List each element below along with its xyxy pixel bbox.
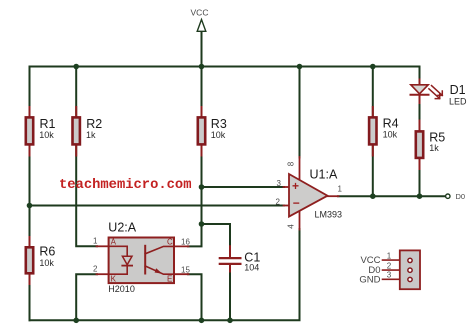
resistor R4 bbox=[369, 107, 399, 156]
resistor R2 bbox=[73, 107, 103, 156]
svg-text:4: 4 bbox=[287, 224, 296, 229]
svg-text:C: C bbox=[167, 238, 173, 247]
wire: U1 pin 8 supply column from top bus bbox=[299, 67, 301, 158]
junction node: R4 top at bus bbox=[370, 64, 376, 70]
svg-text:R4: R4 bbox=[383, 117, 399, 131]
wire: D1/R5 column down to output line bbox=[419, 79, 421, 196]
junction node: C1/U2 pin 16 branch bbox=[199, 221, 205, 227]
wire: node to C1 branch down to ground bus bbox=[202, 224, 231, 247]
wire: bottom ground bus with corner up to U1 pin 4 bbox=[30, 229, 300, 320]
connector J1 bbox=[359, 250, 420, 289]
wire: U2 pin 2 left then down to ground bus bbox=[76, 274, 97, 320]
optocoupler U2:A bbox=[93, 221, 190, 295]
svg-text:3: 3 bbox=[277, 179, 282, 188]
junction node: U2 pin 2 at ground bus bbox=[73, 318, 79, 324]
svg-text:U2:A: U2:A bbox=[108, 221, 136, 235]
junction node: R3 bottom and non-inverting line bbox=[199, 184, 205, 190]
junction node: R4 bottom at output line bbox=[370, 193, 376, 199]
resistor R3 bbox=[198, 107, 227, 156]
wire: R3 column from bus down to node row bbox=[201, 67, 203, 225]
resistor R5 bbox=[416, 121, 445, 170]
wire: node down and left to U2 pin 16 bbox=[188, 224, 202, 246]
svg-text:R1: R1 bbox=[40, 117, 56, 131]
wire: C1 bottom lead to ground bus bbox=[229, 271, 231, 321]
internal phototransistor bbox=[144, 246, 146, 274]
svg-text:2: 2 bbox=[387, 261, 392, 270]
svg-text:10k: 10k bbox=[211, 130, 226, 140]
optocoupler U2:A pin stubs bbox=[97, 246, 189, 274]
connector pin 1 pad bbox=[408, 258, 412, 262]
VCC power symbol bbox=[197, 20, 206, 32]
svg-text:1k: 1k bbox=[86, 130, 96, 140]
svg-text:104: 104 bbox=[244, 263, 259, 273]
connector pin 3 pad bbox=[408, 277, 412, 281]
wire: VCC symbol lead bbox=[201, 32, 203, 67]
svg-text:10k: 10k bbox=[39, 258, 54, 268]
svg-text:A: A bbox=[111, 238, 117, 247]
internal LED bbox=[109, 246, 128, 256]
svg-text:R2: R2 bbox=[86, 117, 102, 131]
resistor R6 bbox=[26, 237, 56, 284]
svg-text:GND: GND bbox=[359, 274, 380, 285]
svg-text:2: 2 bbox=[93, 264, 98, 273]
wire: R2 column from bus down then right to U2 pin 1 bbox=[76, 67, 97, 247]
svg-text:1: 1 bbox=[387, 251, 392, 260]
junction node: R2 top at VCC bus bbox=[73, 64, 79, 70]
junction node: R5 bottom at output line bbox=[417, 193, 423, 199]
svg-text:10k: 10k bbox=[39, 130, 54, 140]
svg-text:VCC: VCC bbox=[191, 8, 209, 18]
resistor R1 bbox=[26, 107, 56, 156]
connector J1 pin lines bbox=[383, 260, 404, 279]
svg-text:1: 1 bbox=[338, 185, 343, 194]
svg-text:2: 2 bbox=[276, 197, 281, 206]
svg-text:K: K bbox=[111, 275, 117, 284]
svg-text:D1: D1 bbox=[450, 83, 466, 97]
svg-text:1: 1 bbox=[93, 236, 98, 245]
svg-text:U1:A: U1:A bbox=[310, 168, 338, 182]
svg-text:D0: D0 bbox=[456, 192, 466, 201]
junction node: U2 pin 15 at ground bus bbox=[199, 318, 205, 324]
junction node: VCC/R3 at bus bbox=[199, 64, 205, 70]
svg-text:8: 8 bbox=[287, 161, 296, 166]
wire: inverting input line from node at R1 column to U1 pin 2 bbox=[30, 205, 285, 207]
svg-text:H2010: H2010 bbox=[108, 284, 135, 294]
svg-text:R3: R3 bbox=[211, 117, 227, 131]
wire: non-inverting input line to U1 pin 3 bbox=[202, 186, 285, 188]
svg-text:15: 15 bbox=[181, 266, 190, 275]
junction node: R1/R6 and inverting line bbox=[27, 203, 33, 209]
svg-text:E: E bbox=[167, 275, 172, 284]
wire: R4 column from bus down to output line bbox=[372, 67, 374, 197]
svg-text:1k: 1k bbox=[429, 143, 439, 153]
capacitor C1 bbox=[220, 246, 261, 272]
LED D1 bbox=[411, 80, 468, 107]
svg-text:LED: LED bbox=[449, 96, 467, 106]
connector pin 2 pad bbox=[408, 268, 412, 272]
svg-text:teachmemicro.com: teachmemicro.com bbox=[59, 177, 191, 193]
junction node: U1 pin 8 at bus bbox=[297, 64, 303, 70]
wire: U1 output line to D0 terminal bbox=[338, 195, 445, 197]
wire: left column through R1 and R6 down to ground bus bbox=[29, 67, 31, 321]
svg-text:3: 3 bbox=[387, 271, 392, 280]
junction node: C1 at ground bus bbox=[227, 318, 233, 324]
svg-text:−: − bbox=[293, 196, 300, 210]
svg-text:R6: R6 bbox=[39, 245, 55, 259]
svg-text:LM393: LM393 bbox=[315, 210, 343, 220]
svg-text:16: 16 bbox=[181, 238, 190, 247]
wire: top VCC bus with corner down to D1 column bbox=[30, 67, 420, 81]
svg-text:10k: 10k bbox=[383, 130, 398, 140]
op-amp U1:A pin stubs bbox=[284, 157, 339, 230]
svg-text:+: + bbox=[292, 179, 299, 193]
terminal D0 bbox=[446, 194, 450, 198]
op-amp U1:A bbox=[276, 161, 343, 229]
wire: U2 pin 15 right then down to ground bus bbox=[188, 274, 202, 320]
